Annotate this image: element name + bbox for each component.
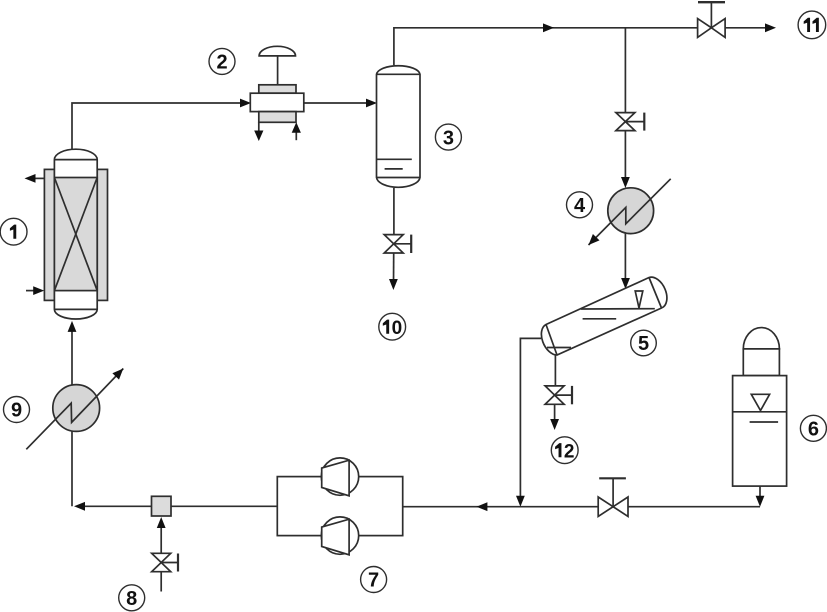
valve V12 — [545, 386, 572, 404]
pipe valve to exchanger 4 — [621, 131, 630, 188]
vessel V6 feed tank — [733, 328, 787, 487]
pipe valve V11 to outlet 11 — [725, 23, 776, 32]
svg-text:8: 8 — [126, 588, 137, 610]
svg-text:0: 0 — [392, 318, 403, 339]
svg-text:2: 2 — [564, 441, 575, 462]
node label 11 — [798, 11, 826, 39]
node label 3 — [435, 124, 461, 150]
pipe branch down from header — [624, 28, 626, 113]
svg-text:2: 2 — [216, 52, 227, 74]
svg-text:6: 6 — [808, 419, 819, 441]
vessel V5 tilted separator — [541, 277, 667, 355]
svg-text:3: 3 — [443, 127, 454, 149]
pipe vessel 5 drain — [554, 355, 556, 386]
svg-text:5: 5 — [638, 333, 649, 355]
reactor top side outlet arrow — [25, 174, 45, 183]
node label 8 — [119, 585, 145, 611]
mixing tee S8 — [152, 496, 172, 516]
node label 9 — [4, 397, 30, 423]
node label 5 — [631, 330, 657, 356]
pipe valve 8 tail — [160, 572, 162, 592]
pump station 7 manifold box — [277, 477, 402, 536]
pipe valve 12 outlet arrow — [550, 404, 559, 430]
reactor R1 — [44, 149, 107, 319]
pipe bottom left riser through exchanger 9 to reactor — [68, 321, 77, 506]
pipe vessel 3 top header — [394, 23, 697, 65]
pipe valve 10 outlet arrow — [389, 253, 398, 290]
node label 7 — [361, 567, 387, 593]
pipe pump suction run to riser — [74, 502, 277, 511]
node label 6 — [800, 415, 826, 441]
pipe reactor top to compressor inlet — [72, 99, 251, 150]
heat exchanger E4 (cooler) — [589, 179, 671, 245]
heat exchanger E9 (heater) — [26, 369, 123, 450]
compressor C2 — [250, 46, 303, 141]
svg-text:7: 7 — [368, 570, 379, 592]
valve V10 — [384, 235, 411, 253]
node label 4 — [567, 192, 593, 218]
pump P7b — [321, 517, 358, 555]
node label 12 — [551, 437, 578, 464]
pipe makeup feed arrow into tee — [157, 517, 166, 553]
node label 10 — [379, 313, 406, 340]
vessel V3 — [377, 66, 421, 188]
svg-text:4: 4 — [574, 195, 586, 217]
pipe bottom right run — [403, 502, 760, 511]
valve on bottom right run — [598, 478, 628, 516]
valve V11 — [698, 2, 726, 37]
node label 1 — [0, 218, 27, 245]
svg-text:9: 9 — [11, 400, 22, 422]
pipe vessel 3 drain — [393, 188, 395, 235]
node label 2 — [209, 48, 235, 74]
pump P7a — [321, 458, 358, 496]
pipe vessel 6 down arrow — [756, 486, 765, 507]
pipe compressor outlet to vessel 3 — [304, 99, 377, 108]
valve V8 — [152, 553, 178, 571]
pipe through exchanger 4 down to vessel 5 — [621, 188, 630, 289]
pipe vessel 5 left outlet down to bottom line — [516, 338, 541, 506]
valve on branch to exchanger 4 — [616, 113, 644, 131]
reactor bottom side inlet arrow — [26, 286, 44, 295]
